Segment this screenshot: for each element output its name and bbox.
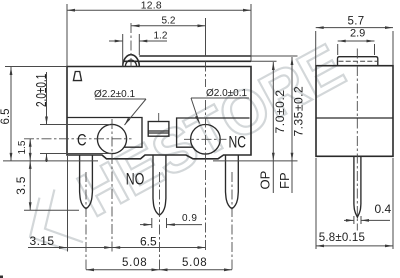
svg-text:Ø2.0±0.1: Ø2.0±0.1 [206,88,248,99]
pin NC (right terminal) [226,155,239,209]
dim 6.5 left vertical [10,67,12,161]
lever arm top line [139,55,251,57]
svg-text:5.7: 5.7 [348,15,365,27]
svg-text:6.5: 6.5 [0,109,12,125]
ext line lever end [205,18,207,56]
side view parting line [316,117,393,119]
svg-text:OP: OP [258,171,273,190]
ext line lever top right [251,55,298,57]
svg-text:1.2: 1.2 [154,31,168,42]
svg-text:0.9: 0.9 [182,213,197,224]
svg-text:5.08: 5.08 [122,257,147,269]
hole NC centerlines [184,138,227,140]
svg-text:NO: NO [126,169,145,188]
svg-text:5.2: 5.2 [162,16,176,27]
svg-text:1.5: 1.5 [17,140,28,154]
svg-text:7.35±0.2: 7.35±0.2 [292,86,306,137]
roller centerline [130,23,132,67]
roller inner arc [125,60,136,67]
dim 0.9 [140,224,152,226]
svg-text:C: C [77,131,87,150]
pin C centerline [85,172,87,272]
ext line seating right [213,160,298,162]
pin NC centerline [231,172,233,272]
internal step left [67,118,142,148]
ext lines 5.8 [315,158,317,249]
marker trapezoid top-left [73,72,81,81]
svg-text:FP: FP [277,172,292,189]
svg-text:2.0±0.1: 2.0±0.1 [33,74,49,107]
pin C (left terminal) [80,155,93,209]
hole C centerlines [24,138,132,140]
svg-text:NC: NC [229,132,247,151]
watermark [10,31,356,263]
ext line roller right [138,34,140,55]
dim 12.8 line [67,9,251,11]
ext line body left bottom [67,156,69,252]
dim 3.5 [29,161,31,210]
side view button [338,57,378,66]
dim phi2.2 leader [95,98,146,100]
wire: main body outline [67,67,251,159]
hole C circle [97,124,126,153]
ext line hole C top tangent [40,124,110,126]
hole NC circle [191,125,221,155]
dim 5.2 line [132,25,206,27]
side view pin [354,156,361,217]
svg-text:12.8: 12.8 [141,1,162,12]
internal step right [177,118,250,147]
ext line body right top [250,4,252,62]
dim 1.5 [29,139,31,161]
dim 5.7 [316,27,393,29]
middle window centerline [158,113,160,121]
svg-text:6.5: 6.5 [140,235,157,249]
svg-text:0.4: 0.4 [375,202,392,216]
svg-text:3.15: 3.15 [30,234,55,248]
dim 1.2 [109,40,123,42]
svg-text:7.0±0.2: 7.0±0.2 [273,89,287,133]
ext line pin tip left [24,209,79,211]
dim phi2.0 leader [191,97,249,99]
roller outer arc [123,55,140,67]
dim 5.08 bottom line [86,269,232,271]
lever arm bottom line [123,60,251,62]
svg-text:5.08: 5.08 [182,257,207,269]
side view centerline [356,49,358,231]
dim 7.35±0.2 [291,57,293,193]
dim 5.8±0.15 [316,245,393,247]
ext lines 0.4 [353,216,355,224]
svg-text:2.9: 2.9 [350,28,365,40]
corner mark [0,276,3,278]
ext line body left top [66,4,68,67]
ext lines 5.7 [315,31,317,65]
pin NO centerline [159,172,161,272]
dim 2.9 [338,40,375,42]
svg-text:3.5: 3.5 [14,176,28,195]
ext line roller left [122,34,124,67]
ext lines 2.9 [337,44,339,55]
ext line body top left [5,66,67,68]
ext line hole C bottom tangent [40,153,112,155]
middle contact window rect [148,122,169,137]
ext lines pin NO sides [151,218,153,228]
ext line lever bottom right [251,60,277,62]
svg-text:Ø2.2±0.1: Ø2.2±0.1 [94,89,136,100]
dim 7.0±0.2 [272,62,274,193]
pin NO (middle terminal) [153,155,166,215]
svg-text:5.8±0.15: 5.8±0.15 [319,232,365,244]
button hidden line [339,60,378,62]
dim 2.0±0.1 [46,72,48,125]
ext line seating left [3,160,98,162]
side view body [316,66,393,157]
dim 0.4 [344,219,354,221]
dim 3.15 / 6.5 bottom line [28,247,206,249]
